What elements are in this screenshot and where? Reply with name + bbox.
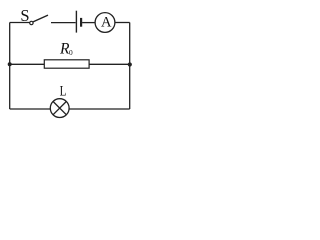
wire: top segment from ammeter to top-right corner: [116, 22, 130, 24]
switch S (open knife switch): [30, 15, 48, 25]
wire: bottom segment from lamp L to bottom-right corner: [69, 108, 130, 110]
ammeter A1: [95, 13, 115, 33]
svg-text:L: L: [60, 84, 67, 100]
wire: top segment from switch S to battery positive plate: [51, 22, 76, 24]
battery B1 (cell): [76, 11, 81, 33]
lamp L (circle with X): [50, 99, 69, 118]
svg-text:0: 0: [69, 48, 73, 57]
svg-text:A: A: [101, 15, 112, 31]
wire: top segment from top-left corner to switch S pivot: [10, 22, 30, 24]
wire: right vertical (top-right corner to bottom-right corner): [129, 23, 131, 110]
wire: top segment from battery negative plate to ammeter: [82, 22, 95, 24]
wire: left vertical (top-left corner to bottom-left corner): [9, 23, 11, 110]
wire: middle segment from resistor R0 to right junction: [90, 63, 130, 65]
wire: middle segment from left junction to resistor R0: [10, 63, 44, 65]
wire: bottom segment from bottom-left corner to lamp L: [10, 108, 51, 110]
resistor R0 (box): [44, 60, 89, 68]
svg-text:S: S: [20, 6, 29, 25]
junction: left node (left wire / R0 branch): [8, 62, 12, 66]
junction: right node (right wire / R0 branch): [128, 62, 132, 66]
